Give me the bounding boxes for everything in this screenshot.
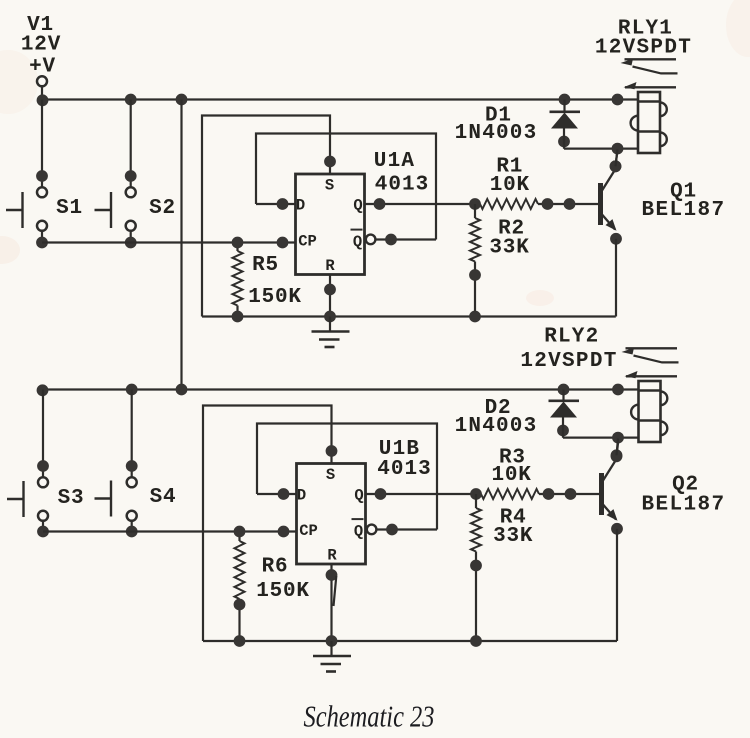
svg-text:RLY2: RLY2: [544, 326, 599, 349]
svg-text:D: D: [297, 487, 306, 505]
svg-text:S3: S3: [58, 487, 85, 510]
svg-text:S1: S1: [56, 197, 83, 220]
svg-text:R: R: [325, 257, 335, 275]
svg-text:R6: R6: [262, 556, 289, 579]
svg-text:Q: Q: [353, 233, 362, 251]
svg-text:1N4003: 1N4003: [455, 122, 538, 145]
svg-text:S: S: [326, 466, 335, 484]
svg-text:12VSPDT: 12VSPDT: [520, 350, 617, 373]
svg-text:4013: 4013: [377, 458, 431, 481]
svg-text:S: S: [325, 176, 334, 194]
svg-text:150K: 150K: [256, 580, 310, 603]
svg-text:+V: +V: [29, 56, 56, 79]
svg-text:10K: 10K: [491, 464, 531, 487]
svg-text:CP: CP: [299, 522, 318, 540]
svg-text:R: R: [327, 547, 337, 565]
svg-text:BEL187: BEL187: [641, 199, 725, 222]
svg-text:Schematic 23: Schematic 23: [304, 699, 435, 734]
svg-text:U1A: U1A: [374, 150, 415, 173]
svg-text:CP: CP: [298, 233, 317, 251]
svg-text:12V: 12V: [21, 34, 61, 57]
svg-text:33K: 33K: [489, 237, 529, 260]
svg-text:BEL187: BEL187: [641, 494, 725, 517]
svg-text:Q: Q: [354, 523, 363, 541]
svg-text:150K: 150K: [248, 286, 302, 309]
svg-text:12VSPDT: 12VSPDT: [595, 37, 692, 60]
svg-text:4013: 4013: [375, 174, 429, 197]
svg-text:D: D: [296, 197, 305, 215]
svg-text:Q: Q: [354, 487, 363, 505]
svg-text:S2: S2: [149, 197, 176, 220]
svg-text:33K: 33K: [493, 525, 533, 548]
svg-text:S4: S4: [150, 486, 177, 509]
svg-text:Q: Q: [353, 197, 362, 215]
svg-text:1N4003: 1N4003: [455, 415, 538, 438]
svg-text:R5: R5: [252, 254, 279, 277]
svg-text:10K: 10K: [490, 174, 530, 197]
